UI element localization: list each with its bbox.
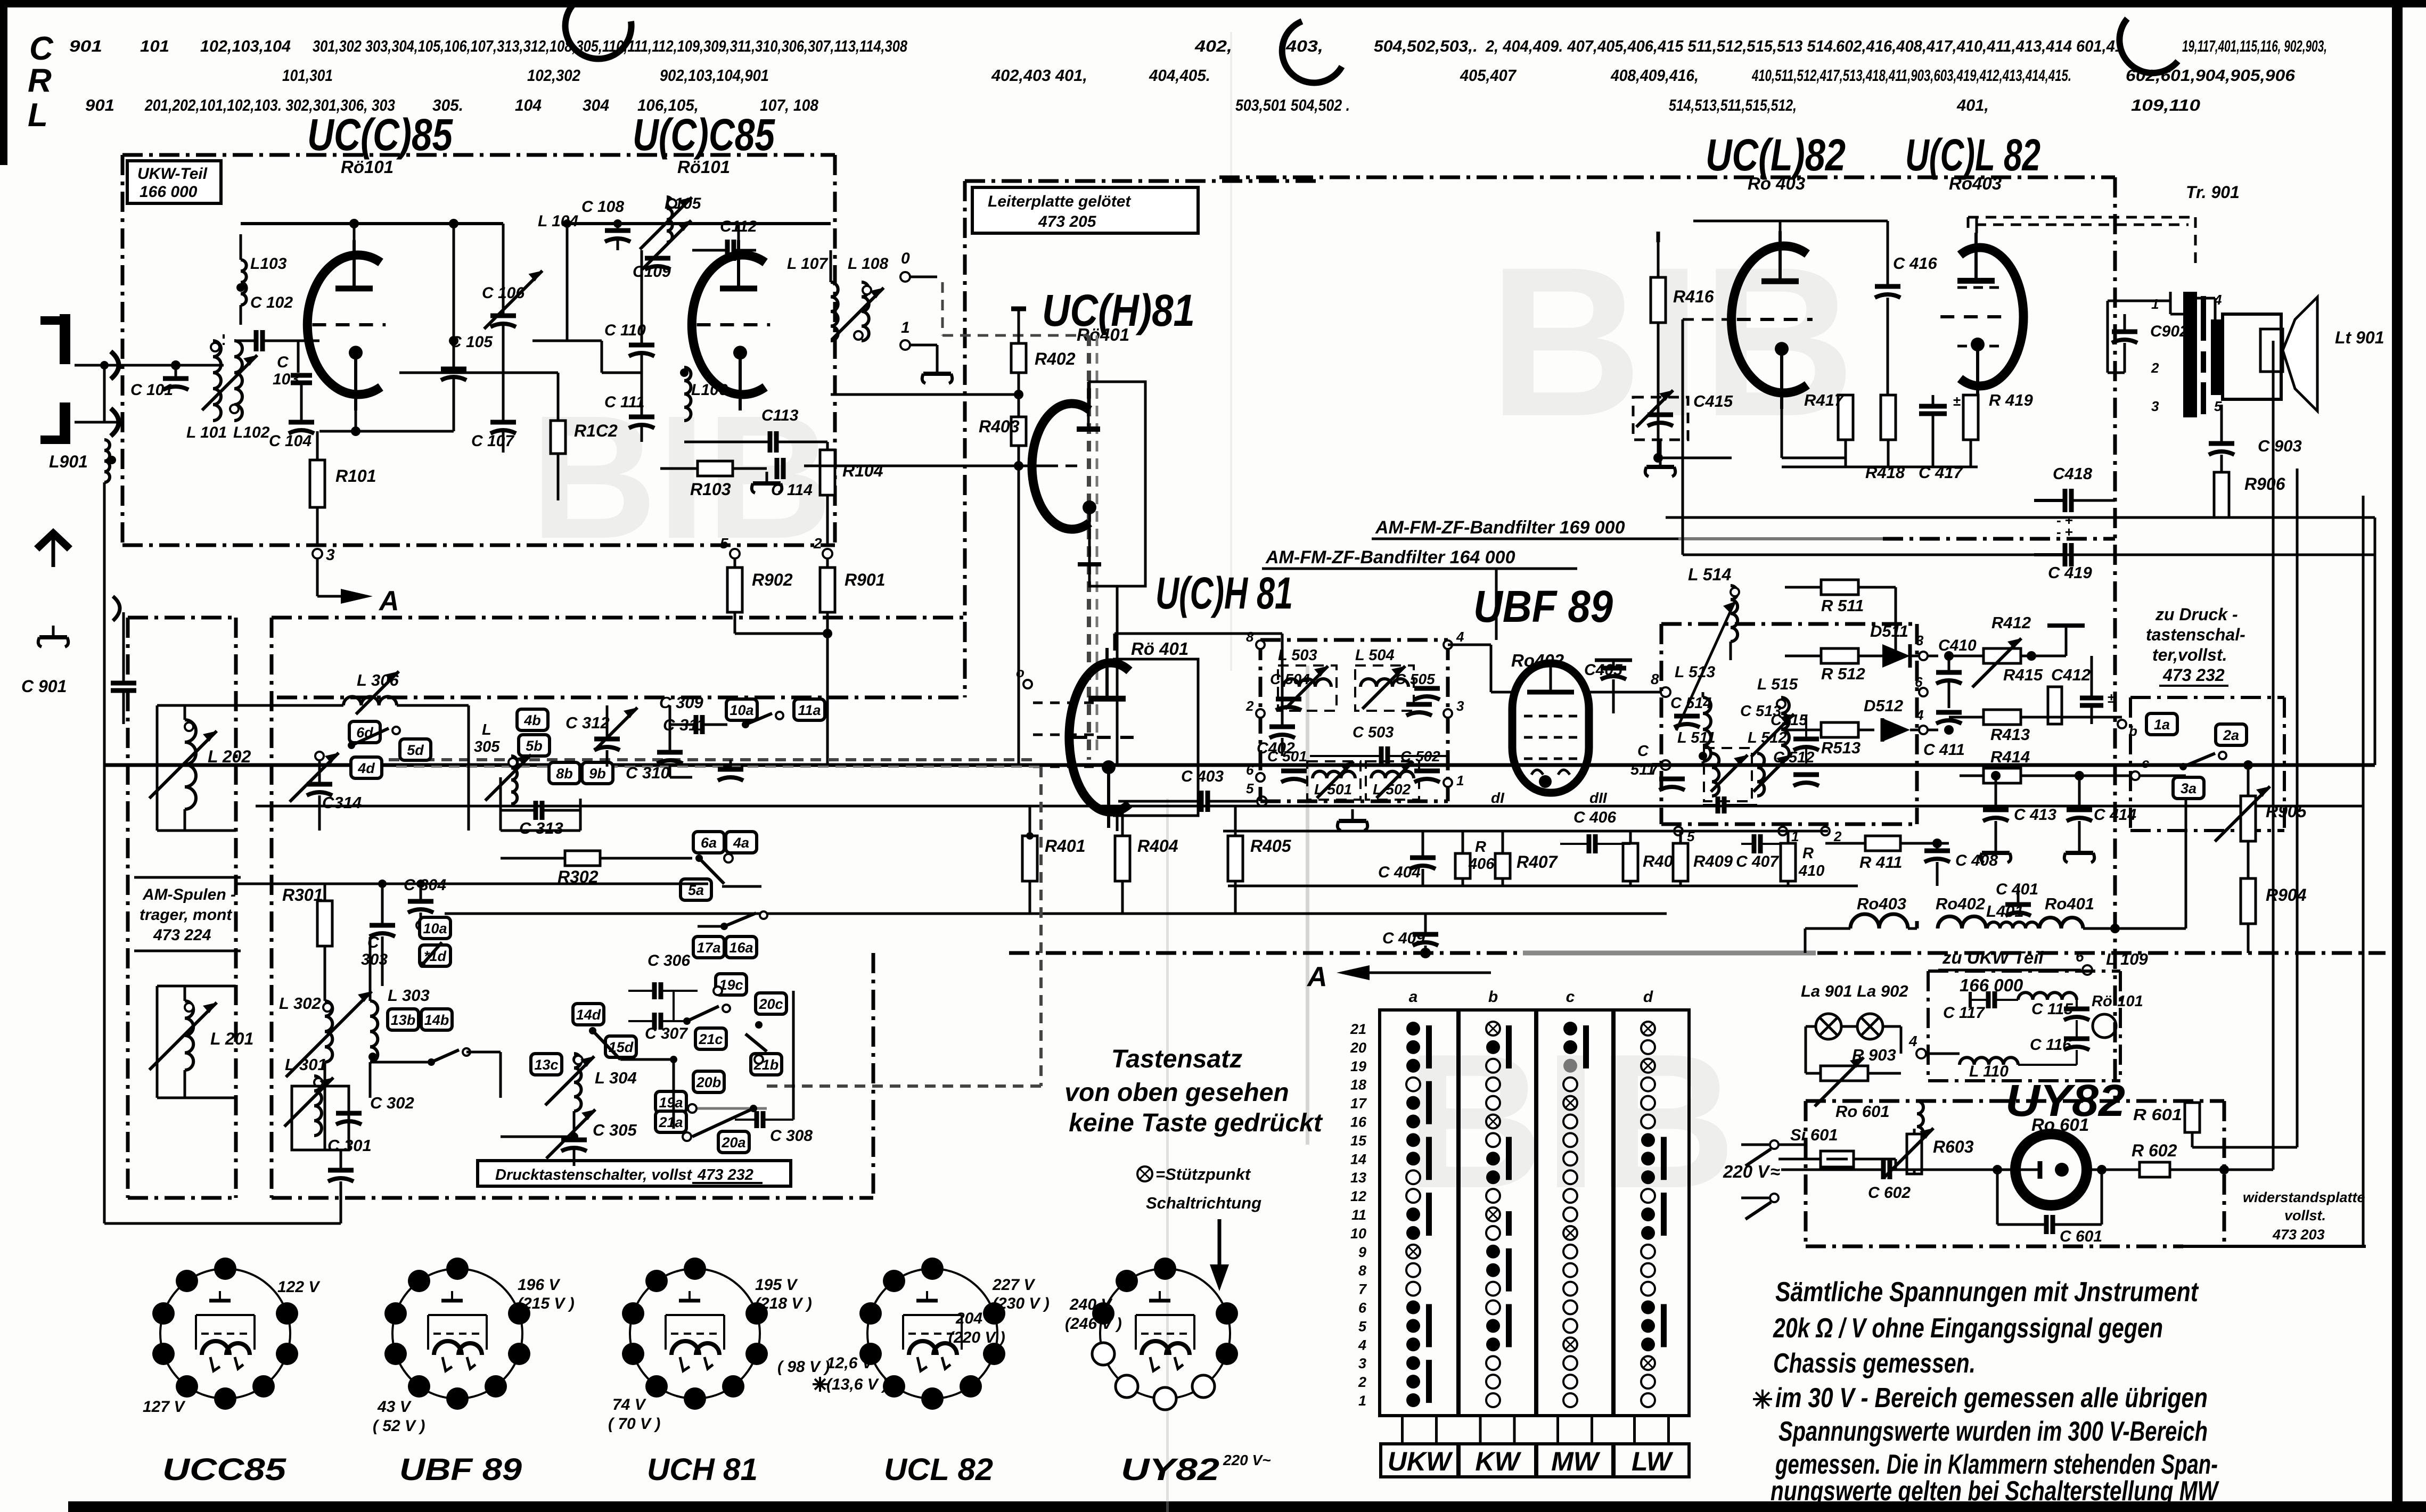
svg-text:R 601: R 601 [2133,1105,2182,1124]
svg-text:11a: 11a [798,702,821,718]
zu Druck box (dash-dot) [2130,697,2284,831]
terminal 1 [900,319,952,383]
resistor R401 [1022,806,1086,914]
svg-text:(218 V ): (218 V ) [755,1295,812,1312]
A arrow left [1306,953,1491,992]
wire t1 cathode [319,401,454,436]
C R L index letters [28,30,54,134]
svg-text:C 417: C 417 [1919,463,1963,482]
svg-text:L 302: L 302 [279,994,321,1013]
svg-text:R 419: R 419 [1989,391,2033,409]
pin6 [1915,674,1928,696]
bus 1664 [1228,885,1858,888]
svg-text:UKW: UKW [1388,1447,1453,1476]
svg-text:901: 901 [69,37,102,55]
svg-text:401,: 401, [1956,96,1989,114]
tube UY82 rectifier (Ro601) [1914,1134,2140,1205]
resistor R413 [1949,710,2137,744]
svg-text:127 V: 127 V [143,1398,186,1416]
label U(C)H81 second [1131,568,1293,659]
label Tr901 [2186,183,2240,202]
chassis dash-dot vertical right [2113,177,2117,1101]
pin 4 L110 [1908,1033,2077,1080]
tag 21a [655,1111,686,1132]
svg-text:AM-Spulen -: AM-Spulen - [142,886,236,903]
resistor R402 [1011,309,1076,395]
tags 8b-9b wires [579,799,582,831]
svg-text:R901: R901 [845,570,886,589]
svg-text:R 602: R 602 [2132,1141,2177,1160]
svg-text:( 52 V ): ( 52 V ) [373,1417,425,1435]
switch table dots column a [1406,1022,1432,1407]
svg-text:43 V: 43 V [377,1398,412,1416]
tag 8b 9b [549,762,613,784]
capacitor C515 [1771,712,1819,765]
resistor R901 [813,535,886,765]
svg-text:C 310: C 310 [626,763,670,782]
svg-text:4: 4 [1908,1033,1917,1049]
svg-text:220 V~: 220 V~ [1223,1452,1271,1468]
tag 19a [655,1091,686,1113]
bus 1561 [1223,830,1828,833]
capacitor C403 [1118,768,1267,812]
svg-text:C902: C902 [2150,323,2189,340]
tag 6d [349,721,380,743]
label R415 [2003,665,2043,684]
svg-text:C 301: C 301 [327,1136,372,1155]
switch table column boxes [1380,1010,1689,1416]
svg-text:R: R [1475,839,1486,856]
svg-text:C 117: C 117 [1943,1004,1985,1022]
coil L202 [150,705,251,831]
svg-text:b: b [1488,988,1498,1006]
svg-text:195 V: 195 V [755,1276,798,1294]
svg-text:≈: ≈ [1771,1162,1780,1181]
tag 20c [756,993,786,1014]
capacitor C901 [21,612,136,724]
svg-text:15: 15 [1350,1132,1367,1148]
capacitor C113 [684,407,827,453]
svg-text:C 313: C 313 [519,819,563,837]
svg-text:12,6 V: 12,6 V [826,1354,874,1372]
resistor R904 [2241,878,2307,953]
svg-text:514,513,511,515,512,: 514,513,511,515,512, [1669,96,1797,114]
resistor R101 [310,431,376,545]
svg-text:303: 303 [361,951,388,968]
svg-text:C 407: C 407 [1736,853,1779,870]
capacitor C414 [2064,771,2137,862]
svg-text:tastenschal-: tastenschal- [2146,625,2245,644]
svg-text:R401: R401 [1045,836,1086,856]
filter cap C504 [1270,671,1310,710]
tube UCH81 mixer (Rö401) [1069,648,1198,828]
svg-text:L 110: L 110 [1969,1063,2009,1080]
svg-text:Ro402: Ro402 [1936,894,1985,913]
svg-text:9b: 9b [589,766,606,782]
svg-text:( 98 V ): ( 98 V ) [777,1358,830,1376]
svg-text:L 501: L 501 [1314,781,1352,798]
dashed bus pair [389,760,1044,1086]
svg-text:8b: 8b [556,766,573,782]
svg-text:R: R [1802,845,1814,862]
Drucktastenschalter label box [478,1161,791,1186]
svg-text:C 108: C 108 [581,198,624,216]
svg-text:L 513: L 513 [1675,663,1715,681]
svg-text:L 101: L 101 [186,424,227,441]
label UC(H)81 first [1042,285,1195,344]
wire top am [236,880,708,888]
svg-text:Schaltrichtung: Schaltrichtung [1146,1194,1261,1212]
svg-text:±: ± [1953,393,1961,409]
svg-text:11: 11 [1351,1207,1366,1223]
svg-text:trager, mont: trager, mont [140,906,233,924]
tag 5d [400,739,431,760]
capacitor C111 [604,373,654,442]
svg-text:AM-FM-ZF-Bandfilter 164 000: AM-FM-ZF-Bandfilter 164 000 [1265,547,1515,568]
svg-text:C 312: C 312 [565,713,610,732]
svg-text:L 511: L 511 [1677,729,1715,746]
arc terminal [113,596,120,621]
svg-text:C 114: C 114 [771,481,813,499]
svg-text:(13,6 V ): (13,6 V ) [826,1376,888,1393]
wire fm input [171,360,224,373]
svg-text:Lt 901: Lt 901 [2335,328,2384,347]
svg-text:0: 0 [901,250,910,267]
svg-text:R905: R905 [2266,802,2307,821]
svg-text:901: 901 [85,96,114,114]
svg-text:A: A [1306,962,1327,992]
part-number index row C [69,37,2327,55]
tag 1a [2146,713,2177,735]
svg-text:204 V: 204 V [955,1310,999,1327]
wire ucl2 screen [2002,316,2079,317]
svg-text:166 000: 166 000 [140,183,198,201]
tag 3a [2173,777,2204,799]
svg-text:C314: C314 [322,793,362,812]
voltage note text [1753,1277,2219,1507]
capacitor C412 [2048,665,2091,724]
Stuetzpunkt note [1137,1165,1261,1212]
capacitor C409 [1382,914,1438,958]
svg-text:Ro 601: Ro 601 [1835,1102,1890,1121]
resistor R302 [501,851,692,886]
coil L105 [640,195,702,249]
svg-text:von oben gesehen: von oben gesehen [1064,1079,1289,1107]
svg-text:L 504: L 504 [1355,647,1395,664]
svg-text:3a: 3a [2181,780,2196,796]
tag 4a [726,832,757,853]
UKW coupling box (dash-dot) [1928,971,2120,1081]
tag 11d lower [420,945,450,966]
label UC(L)82 [1706,130,1846,193]
svg-text:vollst.: vollst. [2284,1207,2326,1223]
label L305 [474,721,500,755]
svg-text:602,416,408,417,410,411,413,41: 602,416,408,417,410,411,413,414 601,41 [1836,37,2124,55]
capacitor C313 [501,801,580,837]
svg-text:Rö101: Rö101 [341,157,394,177]
capacitor C115 [2031,1000,2089,1020]
capacitor C106 trimmer [482,224,543,405]
svg-text:305: 305 [474,738,500,755]
svg-text:A: A [378,586,399,617]
pin4 C411 [1915,707,1965,759]
wire antenna to UKW box [75,361,176,422]
capacitor C104 [269,383,314,450]
AM-FM-ZF-Bandfilter 164000 label [1262,547,1577,640]
svg-text:C 111: C 111 [604,393,645,411]
capacitor C513 [1703,703,1781,813]
svg-text:C 406: C 406 [1573,809,1616,826]
coil L306 [236,671,469,714]
svg-text:dII: dII [1589,790,1608,806]
svg-text:408,409,416,: 408,409,416, [1610,66,1699,85]
tag 6a [693,832,724,853]
tag 19c [716,974,747,995]
switch lever 20a [683,1105,757,1141]
labels R418 C417 [1865,463,1963,482]
wire left tall loop [104,482,341,1223]
wires L302 col [236,937,370,1150]
svg-text:C 306: C 306 [648,952,690,969]
svg-text:C 102: C 102 [250,294,293,311]
svg-text:R418: R418 [1865,463,1905,482]
svg-text:L 512: L 512 [1748,729,1787,746]
svg-text:19a: 19a [659,1095,683,1111]
svg-text:20a: 20a [721,1135,745,1151]
socket UY82 [1065,1258,1271,1487]
svg-text:1: 1 [1456,773,1464,788]
tag 4d [351,757,382,778]
svg-text:c: c [2142,755,2150,771]
svg-text:17a: 17a [696,940,720,956]
svg-text:C412: C412 [2051,665,2091,684]
svg-text:UC(C)85: UC(C)85 [307,110,453,160]
svg-text:R407: R407 [1517,852,1559,872]
resistor mid [1881,395,1896,467]
socket UCC85 [143,1258,321,1487]
capacitor C402 [1257,660,1295,757]
terminal 3 and arrow A [313,546,399,617]
bus y972 [1666,458,2375,517]
svg-text:C 413: C 413 [2014,806,2056,824]
svg-text:C 501: C 501 [1267,748,1307,765]
capacitor C404 [1378,831,1436,886]
svg-text:Rö 401: Rö 401 [1131,639,1189,659]
svg-text:U(C)H 81: U(C)H 81 [1155,568,1293,618]
svg-text:9: 9 [1358,1244,1366,1260]
coil L109b [2018,992,2077,1000]
svg-text:R513: R513 [1821,738,1861,757]
svg-text:101: 101 [140,37,169,55]
svg-text:410: 410 [1798,862,1824,880]
svg-text:19,117,401,115,116, 902,903,: 19,117,401,115,116, 902,903, [2182,37,2327,55]
capacitor C415 box [1633,390,1733,476]
svg-text:(230 V ): (230 V ) [993,1295,1050,1312]
svg-text:473 203: 473 203 [2272,1227,2325,1243]
capacitor C511 [1630,743,1685,790]
switch table row numbers [1350,1021,1367,1409]
svg-text:R415: R415 [2003,665,2043,684]
svg-text:L102: L102 [233,424,270,441]
power box (dash-dot) [1806,1101,2366,1246]
tube UBF89 (Ro402) [1491,663,1608,806]
switch table dots column d [1641,1022,1667,1407]
tag 2a [2216,724,2247,745]
svg-text:C113: C113 [761,407,799,424]
resistor R414 [1960,747,2186,783]
capacitor C107 [471,405,516,453]
resistor R419 [1963,391,2033,467]
resistor R102 [551,373,618,500]
svg-text:nungswerte gelten bei Schalter: nungswerte gelten bei Schalterstellung M… [1771,1476,2219,1507]
bus y1042 [1683,554,2375,556]
svg-text:12: 12 [1350,1188,1366,1204]
label UBF89 [1473,581,1613,670]
capacitor C310 [626,760,743,782]
svg-text:21c: 21c [698,1031,723,1047]
resistor R511 [1785,580,1896,655]
resistor R411 [1825,836,1949,872]
fuse Si601 [1778,1125,1896,1170]
wire ucl2 anode [1976,217,1978,233]
capacitor C117 [1943,991,2018,1022]
svg-text:5b: 5b [526,738,543,754]
switch table band labels UKW KW MW LW [1381,1416,1689,1477]
svg-text:504,502,503,.: 504,502,503,. [1374,37,1478,55]
svg-text:R409: R409 [1693,852,1733,870]
svg-text:402,403 401,: 402,403 401, [991,66,1087,85]
resistor R602 [2132,1141,2273,1177]
svg-text:196 V: 196 V [518,1276,561,1294]
svg-text:U(C)L 82: U(C)L 82 [1905,130,2040,180]
svg-text:Spannungswerte wurden im 300 V: Spannungswerte wurden im 300 V-Bereich [1778,1416,2208,1447]
label UC(C)85 [307,110,453,177]
wire uch1 cathode [1116,586,1119,765]
svg-text:C410: C410 [1938,637,1977,654]
capacitor C406 [1560,809,1630,853]
svg-text:C 514: C 514 [1670,695,1711,712]
svg-text:101,301: 101,301 [282,66,333,85]
svg-text:R404: R404 [1137,836,1178,856]
wire mid ukw [399,219,642,373]
svg-text:C 901: C 901 [21,677,67,696]
tag 17a [693,936,724,958]
speaker Lt901 [2195,297,2384,411]
wire ucl1 anode [1693,221,1888,235]
svg-text:R 411: R 411 [1859,853,1902,872]
Tastensatz text [1064,1045,1323,1137]
tag 13b [388,1009,419,1030]
svg-text:L 202: L 202 [208,747,251,766]
svg-text:UCL 82: UCL 82 [884,1452,993,1487]
tube UCL82 pentode (Rö403) [1940,233,2023,402]
zu UKW Teil label [1938,948,2081,995]
svg-text:C 513: C 513 [1740,703,1781,720]
svg-text:14b: 14b [424,1012,449,1028]
svg-text:8: 8 [1358,1263,1366,1279]
svg-text:C 308: C 308 [770,1127,813,1145]
svg-text:C 503: C 503 [1353,724,1394,741]
svg-text:L 503: L 503 [1278,647,1317,664]
svg-text:R402: R402 [1035,349,1076,368]
tag 10a [726,699,757,720]
svg-text:L 304: L 304 [595,1069,637,1087]
svg-text:UCC85: UCC85 [162,1452,286,1487]
svg-text:5: 5 [1246,780,1254,796]
filter cap C503 [1310,724,1448,766]
filter L501 L502 [1307,761,1419,800]
resistor R906 [2214,472,2285,517]
capacitor C307 [628,1005,730,1042]
filter L503 [1278,647,1337,711]
svg-text:L 502: L 502 [1373,781,1411,798]
svg-text:7: 7 [1358,1281,1367,1297]
svg-text:MW: MW [1551,1447,1601,1476]
svg-text:C 403: C 403 [1181,768,1224,785]
svg-text:406: 406 [1468,856,1495,873]
wire 5a to right [722,886,761,914]
svg-text:dI: dI [1491,790,1505,806]
svg-text:(246 V ): (246 V ) [1065,1315,1122,1333]
coil L901 [49,440,116,482]
svg-text:602,601,904,905,906: 602,601,904,905,906 [2126,66,2296,85]
svg-text:L 104: L 104 [538,212,578,230]
svg-text:10a: 10a [423,921,447,936]
up arrow symbol [34,528,72,567]
tube UCL82 triode (Ro403) [1732,231,1813,409]
Leiterplatte region border (dash-dot) [965,181,1321,697]
tag 16a [726,936,757,958]
elec cap C412 [2080,656,2115,724]
svg-text:402,: 402, [1194,37,1232,55]
capacitor C405 [1584,660,1632,713]
svg-text:L 201: L 201 [210,1029,253,1048]
svg-text:1a: 1a [2154,717,2170,733]
AM-Spulentraeger box (dash-dot) [128,618,236,1198]
resistor R301 [282,884,332,946]
svg-text:102,103,104: 102,103,104 [200,37,291,55]
svg-text:C 505: C 505 [1395,671,1435,687]
wire mixer cathode [1117,801,1118,831]
svg-text:UC(L)82: UC(L)82 [1706,130,1846,180]
resistor R905 [2215,760,2307,878]
coil L305 [485,755,531,804]
terminal 0 [900,250,937,282]
svg-text:4d: 4d [357,760,375,776]
wire grid t1 [298,341,319,373]
switch in zu-box [2179,752,2226,770]
bandfilter 169000 box (dash-dot) [1661,624,1917,824]
transformer Tr901 [2151,292,2222,417]
part-number index row R [282,66,2296,85]
svg-text:C 104: C 104 [269,432,312,450]
capacitor C301 [327,1136,372,1193]
svg-text:102,302: 102,302 [527,66,580,85]
capacitor C512 [1773,749,1819,786]
coil L302 [279,994,332,1062]
main bus 1514 [256,805,2363,808]
capacitor C408 [1924,839,1998,886]
svg-text:240 V: 240 V [1069,1296,1113,1313]
svg-text:13b: 13b [391,1012,416,1028]
choke Ro101r [2092,993,2143,1038]
svg-text:1: 1 [901,319,910,336]
svg-text:R413: R413 [1990,725,2030,744]
resistor R403 [804,390,1026,765]
label U(C)L82 second [1905,130,2040,193]
capacitor C311 [657,705,706,777]
svg-text:14d: 14d [576,1007,601,1023]
